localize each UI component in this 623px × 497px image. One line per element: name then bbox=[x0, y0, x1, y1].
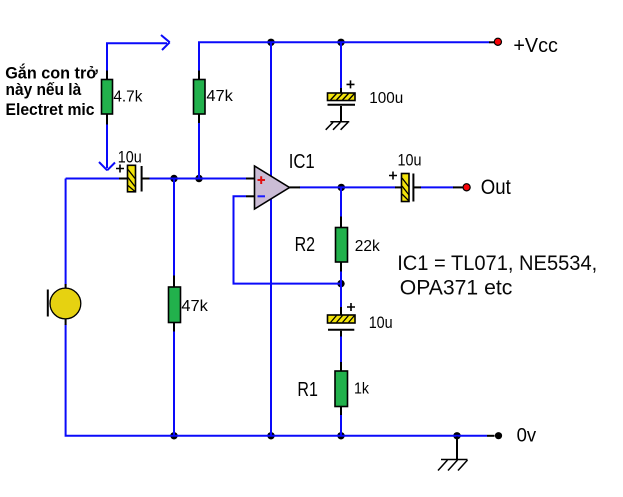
svg-text:1k: 1k bbox=[354, 380, 370, 397]
svg-text:R2: R2 bbox=[295, 234, 316, 256]
svg-text:Out: Out bbox=[481, 176, 511, 199]
svg-text:IC1 = TL071, NE5534,: IC1 = TL071, NE5534, bbox=[397, 252, 597, 275]
svg-text:10u: 10u bbox=[398, 151, 422, 170]
svg-text:22k: 22k bbox=[355, 238, 381, 255]
svg-text:R1: R1 bbox=[297, 379, 318, 401]
svg-text:IC1: IC1 bbox=[289, 151, 315, 173]
svg-text:10u: 10u bbox=[118, 148, 142, 167]
svg-text:0v: 0v bbox=[517, 425, 537, 447]
svg-text:10u: 10u bbox=[369, 313, 393, 332]
svg-text:này nếu là: này nếu là bbox=[6, 80, 82, 99]
svg-text:4.7k: 4.7k bbox=[113, 88, 143, 105]
svg-text:47k: 47k bbox=[181, 298, 209, 315]
svg-text:47k: 47k bbox=[206, 88, 234, 105]
svg-text:Electret mic: Electret mic bbox=[6, 100, 95, 119]
svg-text:100u: 100u bbox=[369, 90, 403, 107]
svg-text:OPA371 etc: OPA371 etc bbox=[400, 277, 513, 300]
svg-text:+Vcc: +Vcc bbox=[513, 35, 558, 57]
